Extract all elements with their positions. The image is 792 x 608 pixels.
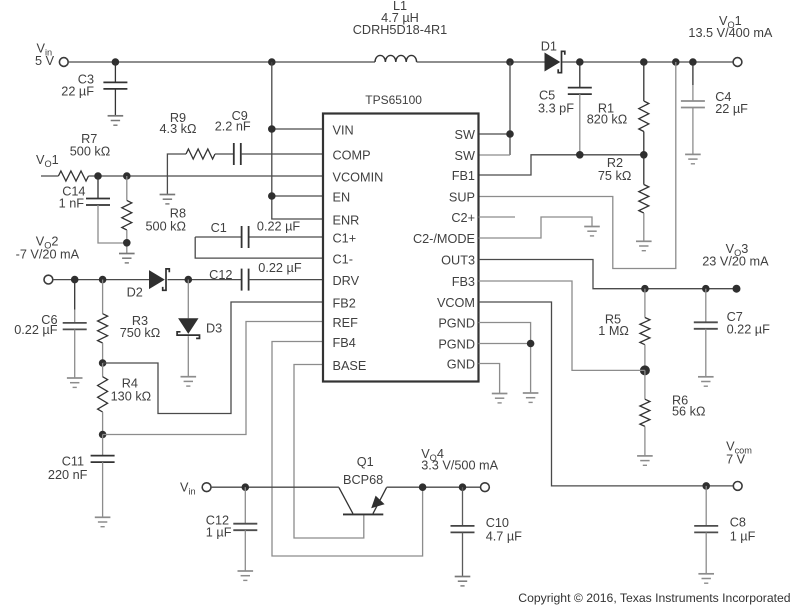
svg-text:PGND: PGND xyxy=(438,338,475,352)
svg-text:1 µF: 1 µF xyxy=(206,526,232,540)
wire top rail L1 to D1 xyxy=(417,61,545,63)
ground C7 xyxy=(698,377,714,386)
node EN pin xyxy=(268,192,276,200)
wire VIN/EN/ENR riser xyxy=(272,62,323,219)
wire R9 to C9 xyxy=(215,153,234,155)
node FB4/VO4 junction xyxy=(419,483,427,491)
capacitor C11 xyxy=(102,435,104,456)
node R1/R2 junction xyxy=(640,151,648,159)
wire C14 bottom link to R8 xyxy=(98,205,127,243)
svg-text:22 µF: 22 µF xyxy=(61,85,94,99)
wire VO1 feedback rail to VCOMIN xyxy=(41,175,58,177)
resistor R4 xyxy=(102,363,104,377)
svg-text:3.3 pF: 3.3 pF xyxy=(538,102,574,116)
node C8 top xyxy=(702,482,710,490)
resistor R7 xyxy=(58,171,88,181)
node VIN riser junction xyxy=(268,58,276,66)
ground R9 left xyxy=(160,195,176,204)
capacitor C12 (1uF) xyxy=(244,487,246,524)
capacitor C3 xyxy=(114,62,116,82)
ground C4 xyxy=(685,154,701,163)
wire GND net xyxy=(479,364,500,394)
transistor Q1 BCP68 xyxy=(339,487,387,514)
svg-text:750 kΩ: 750 kΩ xyxy=(120,326,161,340)
wire FB1 net xyxy=(479,155,644,175)
svg-text:C12: C12 xyxy=(209,268,232,282)
svg-text:-7 V/20 mA: -7 V/20 mA xyxy=(16,247,80,261)
capacitor C8 xyxy=(705,486,707,526)
wire EN pin stub xyxy=(272,195,323,197)
terminal VO4 xyxy=(481,483,490,492)
wire PGND2 stub xyxy=(479,343,531,345)
svg-text:C1+: C1+ xyxy=(333,232,357,246)
wire SW1 stub xyxy=(479,133,511,135)
node R3 top xyxy=(99,276,107,284)
svg-text:ENR: ENR xyxy=(333,214,360,228)
capacitor C6 xyxy=(74,280,76,310)
svg-text:Q1: Q1 xyxy=(357,455,374,469)
svg-text:VCOM: VCOM xyxy=(437,296,475,310)
inductor L1 xyxy=(375,55,417,62)
svg-text:EN: EN xyxy=(333,191,351,205)
wire REF net xyxy=(103,322,323,435)
wire C1+ net xyxy=(249,236,323,238)
wire SW riser xyxy=(509,62,511,155)
node C5 bottom on FB1 xyxy=(576,151,584,159)
svg-text:500 kΩ: 500 kΩ xyxy=(145,219,186,233)
wire C2+ stub xyxy=(479,216,516,218)
ground PGND xyxy=(523,393,539,402)
svg-text:OUT3: OUT3 xyxy=(441,254,475,268)
svg-text:0.22 µF: 0.22 µF xyxy=(257,220,301,234)
svg-text:FB2: FB2 xyxy=(333,297,356,311)
node C7 top xyxy=(702,285,710,293)
svg-text:D2: D2 xyxy=(127,285,143,299)
svg-text:1 µF: 1 µF xyxy=(730,530,756,544)
svg-text:Copyright © 2016, Texas Instru: Copyright © 2016, Texas Instruments Inco… xyxy=(518,591,790,605)
svg-text:VIN: VIN xyxy=(333,124,354,138)
svg-text:C11: C11 xyxy=(62,455,84,469)
svg-text:0.22 µF: 0.22 µF xyxy=(14,323,58,337)
diode D2 xyxy=(149,270,165,289)
node D3 top xyxy=(185,276,193,284)
wire COMP net left ground stub xyxy=(167,154,186,195)
wire VO3/SUP riser and SUP route xyxy=(479,62,676,269)
svg-text:C10: C10 xyxy=(486,516,509,530)
svg-text:0.22 µF: 0.22 µF xyxy=(727,323,771,337)
svg-text:23 V/20 mA: 23 V/20 mA xyxy=(702,255,769,269)
svg-text:0.22 µF: 0.22 µF xyxy=(258,261,302,275)
svg-text:75 kΩ: 75 kΩ xyxy=(598,169,631,183)
node C14 top xyxy=(94,172,102,180)
svg-text:BASE: BASE xyxy=(333,359,367,373)
node C3 junction xyxy=(112,58,120,66)
wire FB3 net xyxy=(479,281,645,370)
svg-text:4.3 kΩ: 4.3 kΩ xyxy=(160,122,197,136)
wire Vin bottom row xyxy=(211,486,339,488)
ground R6 xyxy=(637,456,653,465)
wire FB2 net xyxy=(103,302,323,414)
node C5 top xyxy=(576,58,584,66)
wire SW2 stub xyxy=(479,154,511,156)
ground D3 xyxy=(181,377,197,386)
svg-text:C1: C1 xyxy=(211,221,227,235)
capacitor C4 xyxy=(692,62,694,85)
wire PGND1 net xyxy=(479,323,531,394)
svg-text:R4: R4 xyxy=(122,376,138,390)
svg-text:VCOMIN: VCOMIN xyxy=(333,171,384,185)
node R8 top xyxy=(123,172,131,180)
svg-text:C8: C8 xyxy=(730,516,746,530)
svg-text:C2-/MODE: C2-/MODE xyxy=(413,232,475,246)
svg-text:COMP: COMP xyxy=(333,149,371,163)
ground R8 xyxy=(119,254,135,263)
wire VCOM net xyxy=(479,302,734,486)
svg-text:PGND: PGND xyxy=(438,317,475,331)
wire FB4 net xyxy=(272,342,423,557)
ground R2 xyxy=(636,241,652,250)
svg-text:13.5 V/400 mA: 13.5 V/400 mA xyxy=(688,26,772,40)
capacitor C5 xyxy=(579,62,581,88)
node VIN pin xyxy=(268,125,276,133)
svg-text:TPS65100: TPS65100 xyxy=(365,93,422,107)
resistor R9 xyxy=(186,149,215,159)
svg-text:820 kΩ: 820 kΩ xyxy=(587,113,628,127)
svg-text:D3: D3 xyxy=(206,322,222,336)
svg-text:5 V: 5 V xyxy=(35,54,55,68)
node R8 bottom xyxy=(123,239,131,247)
svg-text:130 kΩ: 130 kΩ xyxy=(111,390,152,404)
diode D3 xyxy=(187,280,189,319)
svg-text:SW: SW xyxy=(455,128,475,142)
resistor R8 xyxy=(126,176,128,200)
capacitor C7 xyxy=(705,289,707,323)
svg-text:2.2 nF: 2.2 nF xyxy=(215,120,251,134)
ground C12 (1uF) xyxy=(238,571,254,580)
svg-text:1 MΩ: 1 MΩ xyxy=(598,324,629,338)
svg-text:FB1: FB1 xyxy=(452,169,475,183)
node R3/R4/FB2 junction xyxy=(99,359,107,367)
node PGND junction xyxy=(527,340,535,348)
svg-text:7 V: 7 V xyxy=(726,453,746,467)
svg-text:56 kΩ: 56 kΩ xyxy=(672,405,705,419)
svg-text:4.7 µF: 4.7 µF xyxy=(486,530,522,544)
node VO3 riser top xyxy=(672,58,680,66)
wire top rail left of L1 xyxy=(68,61,375,63)
node R1 top xyxy=(640,58,648,66)
node C12 (1uF) top xyxy=(242,483,250,491)
svg-text:SUP: SUP xyxy=(449,191,475,205)
svg-text:C1-: C1- xyxy=(333,253,353,267)
svg-text:500 kΩ: 500 kΩ xyxy=(70,145,111,159)
wire VCOMIN rail xyxy=(89,175,324,177)
node VO3 end xyxy=(733,285,741,293)
svg-text:FB4: FB4 xyxy=(333,336,356,350)
capacitor C12 (0.22uF) xyxy=(242,269,249,291)
wire D2 to C12 xyxy=(168,279,242,281)
ground C3 xyxy=(108,116,124,125)
node R5/R6/FB3 junction xyxy=(640,365,650,375)
svg-text:D1: D1 xyxy=(541,40,557,54)
svg-text:FB3: FB3 xyxy=(452,275,475,289)
wire VO2 row to D2 xyxy=(53,279,149,281)
svg-text:SW: SW xyxy=(455,149,475,163)
svg-text:REF: REF xyxy=(333,316,359,330)
node C10 top xyxy=(459,483,467,491)
svg-text:C5: C5 xyxy=(539,89,555,103)
terminal Vin (top) xyxy=(59,58,68,67)
svg-text:CDRH5D18-4R1: CDRH5D18-4R1 xyxy=(353,23,447,37)
resistor R1 xyxy=(643,62,645,101)
wire top rail D1 to VO1 terminal xyxy=(562,61,733,63)
wire Q1 emitter to VO4 xyxy=(387,486,481,488)
svg-text:DRV: DRV xyxy=(333,274,360,288)
terminal Vcom xyxy=(733,482,742,491)
svg-text:GND: GND xyxy=(447,358,475,372)
svg-text:BCP68: BCP68 xyxy=(343,473,383,487)
capacitor C14 xyxy=(97,176,99,199)
svg-text:C2+: C2+ xyxy=(451,211,475,225)
node R4/C11/REF junction xyxy=(99,431,107,439)
ground C11 xyxy=(95,517,111,526)
terminal VO2 xyxy=(44,275,53,284)
wire C1 left leg to C1- xyxy=(195,237,323,258)
svg-text:1 nF: 1 nF xyxy=(59,197,85,211)
ground GND xyxy=(492,394,508,403)
node SW riser junction xyxy=(506,58,514,66)
wire OUT3 to VO3 rail xyxy=(479,260,735,289)
svg-text:22 µF: 22 µF xyxy=(715,102,748,116)
resistor R3 xyxy=(102,280,104,314)
wire C12 to DRV pin xyxy=(249,279,323,281)
ground C8 xyxy=(698,574,714,583)
diode D1 xyxy=(545,53,561,72)
capacitor C10 xyxy=(462,487,464,526)
svg-text:220 nF: 220 nF xyxy=(48,468,88,482)
node SW1 xyxy=(506,130,514,138)
node C4 top xyxy=(689,58,697,66)
ground C6 xyxy=(67,378,83,387)
wire BASE net xyxy=(294,365,364,539)
node C6 top xyxy=(71,276,79,284)
svg-text:3.3 V/500 mA: 3.3 V/500 mA xyxy=(421,458,498,472)
resistor R5 xyxy=(644,289,646,318)
terminal Vin (bottom) xyxy=(202,483,211,492)
resistor R6 xyxy=(644,370,646,399)
ground C2-/MODE xyxy=(584,227,600,236)
wire C2-/MODE to ground xyxy=(479,217,593,238)
capacitor C9 xyxy=(234,143,241,165)
wire VIN pin stub xyxy=(272,128,323,130)
ground C10 xyxy=(455,577,471,586)
IC U1 TPS65100 box xyxy=(323,114,479,382)
wire C9 to COMP pin xyxy=(241,153,323,155)
resistor R2 xyxy=(643,155,645,185)
node R5 top xyxy=(641,285,649,293)
terminal VO1 xyxy=(733,58,742,67)
